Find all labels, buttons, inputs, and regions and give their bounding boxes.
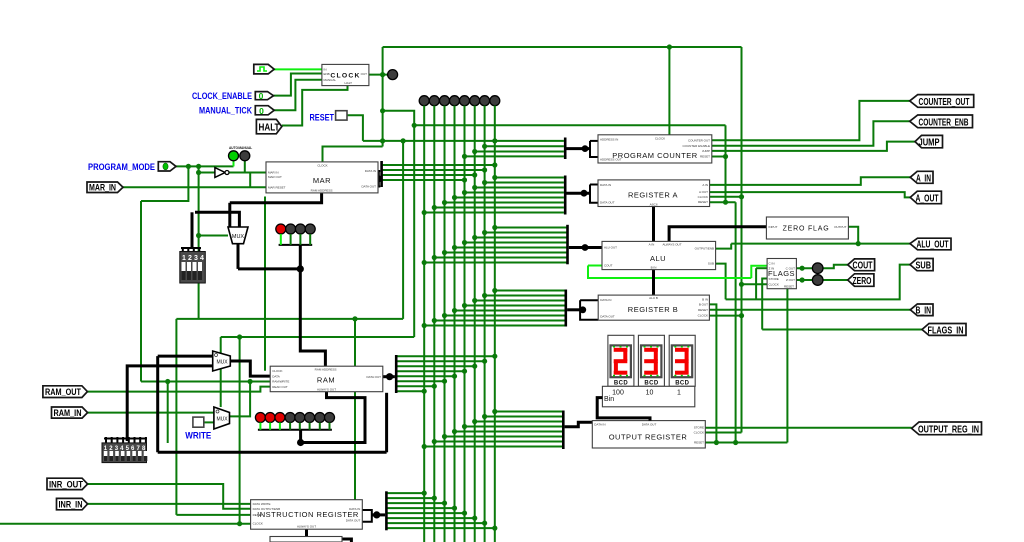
svg-text:ALWAYS OUT: ALWAYS OUT bbox=[662, 242, 681, 246]
box REGISTER B bbox=[598, 295, 709, 320]
wire y125.3 horizontal bbox=[414, 124, 725, 126]
wire regb reset jog bbox=[709, 304, 716, 442]
LED bus3 bbox=[450, 96, 460, 106]
splitter MAR bar bbox=[380, 161, 383, 187]
pin MANUAL_TICK bbox=[255, 106, 274, 116]
wire inr_out route bbox=[88, 484, 251, 509]
box MAR bbox=[266, 162, 378, 193]
wire dip4 stem bbox=[191, 212, 194, 248]
LED D1 clock indicator bbox=[388, 70, 398, 80]
wire mar-mux select bbox=[199, 235, 228, 237]
wire RAM-bus bit y361.2 bbox=[398, 360, 485, 362]
wire ALU-bus bit y262.5 bbox=[424, 262, 567, 264]
node not-in bbox=[196, 170, 201, 175]
wire counter_enb route bbox=[712, 121, 910, 146]
node ALU stem bbox=[582, 244, 589, 251]
wire IR-bus bit y523.1 bbox=[388, 522, 485, 524]
svg-text:REGISTER A: REGISTER A bbox=[628, 191, 678, 200]
svg-text:CLOCK: CLOCK bbox=[317, 164, 327, 168]
svg-text:DATA OUT: DATA OUT bbox=[361, 185, 376, 189]
svg-text:RAM_OUT: RAM_OUT bbox=[45, 387, 81, 397]
svg-text:DATA IN: DATA IN bbox=[594, 423, 605, 427]
wire flags store riser bbox=[762, 279, 767, 330]
svg-text:ADDRESS IN: ADDRESS IN bbox=[600, 138, 618, 142]
svg-text:CLOCK: CLOCK bbox=[769, 283, 779, 287]
wire not input stub bbox=[199, 172, 215, 174]
wire rega reset jog bbox=[710, 201, 736, 203]
svg-text:ALWAYS OUT: ALWAYS OUT bbox=[297, 525, 316, 529]
wire ALU-bus bit y257.5 bbox=[434, 257, 567, 259]
wire IR alwaysout bbox=[307, 529, 352, 542]
wire outreg store line bbox=[706, 427, 912, 429]
LED bus1 bbox=[429, 96, 439, 106]
wire led A3 stub bbox=[299, 234, 301, 245]
wire clock jog to x414 bbox=[383, 111, 415, 337]
label A_IN bbox=[910, 171, 933, 184]
svg-text:COUT: COUT bbox=[604, 264, 613, 268]
wire manual led stub bbox=[244, 161, 246, 173]
svg-text:C OUT: C OUT bbox=[786, 266, 796, 270]
node regb clock bbox=[739, 313, 744, 318]
wire y337 horizontal bbox=[221, 336, 415, 338]
wire flags cin lime bbox=[751, 266, 767, 278]
wire OUTREG-bus bit y426.5 bbox=[465, 426, 563, 428]
svg-text:CLOCK: CLOCK bbox=[253, 522, 263, 526]
svg-text:RESET: RESET bbox=[694, 441, 704, 445]
wire REGB-bus bit y295.5 bbox=[485, 295, 566, 297]
LED B7 bbox=[315, 413, 325, 423]
node alu_out zf tap bbox=[856, 241, 861, 246]
wire OUTREG-bus bit y411.5 bbox=[495, 411, 563, 413]
svg-text:A IN: A IN bbox=[702, 183, 708, 187]
wire mar-mux in2 bbox=[195, 212, 239, 227]
svg-text:OUT: OUT bbox=[361, 72, 368, 76]
box PROGRAM COUNTER bbox=[598, 135, 712, 163]
wire halt route bbox=[282, 86, 348, 126]
mux M2 ram-data bbox=[213, 351, 231, 371]
wire mux2 output riser bbox=[230, 382, 251, 417]
svg-text:2: 2 bbox=[188, 255, 192, 262]
svg-text:COUNTER OUT: COUNTER OUT bbox=[688, 138, 710, 142]
LED B5 bbox=[295, 413, 305, 423]
label COUNTER_OUT bbox=[910, 95, 974, 108]
wire REGB-bus bit y325.5 bbox=[424, 325, 565, 327]
node ramwrite x167.7 bbox=[165, 379, 170, 384]
svg-text:ENB: ENB bbox=[324, 72, 330, 76]
LED bank2 comb bbox=[258, 429, 332, 431]
pin clock-source bbox=[254, 64, 274, 74]
LED D3 zero bbox=[812, 275, 823, 286]
wire REGB-bus bit y305.5 bbox=[465, 305, 566, 307]
label INR_OUT bbox=[47, 478, 88, 489]
svg-text:CLOCK: CLOCK bbox=[694, 431, 704, 435]
LED manual bbox=[240, 151, 250, 161]
box RAM bbox=[270, 366, 383, 392]
label ZERO bbox=[848, 274, 874, 287]
wire RAM-bus bit y391.2 bbox=[398, 390, 425, 392]
svg-text:OUTPUT REGISTER: OUTPUT REGISTER bbox=[609, 433, 688, 442]
wire x735.6 vertical reset south bbox=[735, 202, 737, 442]
wire outreg reset line bbox=[706, 442, 788, 444]
node y141 x403 bbox=[401, 138, 406, 143]
LED bank1 comb bbox=[279, 244, 313, 246]
pin RESET square bbox=[336, 111, 347, 120]
wire MAR ram-address bus bbox=[230, 193, 322, 203]
node pm x188 bbox=[186, 164, 191, 169]
splitter RAM bar bbox=[395, 355, 398, 393]
wire not output to MAR bbox=[229, 172, 266, 174]
wire pc clock drop bbox=[668, 47, 670, 135]
wire inr_in line bbox=[88, 503, 251, 505]
LED auto green bbox=[229, 151, 239, 161]
LED B4 bbox=[285, 413, 295, 423]
wire top horizontal y47 bbox=[383, 46, 742, 48]
svg-text:1: 1 bbox=[677, 390, 681, 397]
wire sub line bbox=[726, 265, 910, 300]
pin WRITE square bbox=[193, 417, 204, 427]
wire clock distribution vertical x741 bbox=[741, 47, 743, 433]
wire MAR-bus bit y165 bbox=[383, 164, 495, 166]
box ALU bbox=[602, 241, 716, 269]
svg-text:MANUAL_TICK: MANUAL_TICK bbox=[199, 106, 252, 117]
svg-text:DATA IN: DATA IN bbox=[365, 169, 376, 173]
wire big loop right riser bbox=[385, 393, 388, 453]
node flags cout bbox=[800, 266, 805, 271]
LED A2 bbox=[286, 224, 296, 234]
wire ALU-bus bit y227.5 bbox=[495, 227, 567, 229]
svg-text:BCD: BCD bbox=[675, 381, 689, 387]
label RAM_IN bbox=[52, 407, 88, 418]
node clock branch y110.8 bbox=[380, 108, 385, 113]
box FLAGS bbox=[767, 259, 796, 289]
wire RAM dataout stem bbox=[383, 375, 395, 378]
svg-text:STORE: STORE bbox=[694, 426, 704, 430]
wire bus column 0 bbox=[423, 106, 425, 542]
LED B6 bbox=[305, 413, 315, 423]
wire mux-out to ram address bbox=[238, 267, 300, 270]
wire flags zin stub bbox=[756, 267, 767, 269]
label JUMP bbox=[915, 135, 943, 148]
wire MAR-bus bit y170 bbox=[383, 169, 485, 171]
svg-text:A_IN: A_IN bbox=[916, 173, 931, 184]
DIP switch S1 1234 bbox=[180, 248, 206, 284]
svg-text:ADDRESS OUT: ADDRESS OUT bbox=[600, 158, 622, 162]
wire OUTREG-bus bit y446.5 bbox=[424, 446, 562, 448]
svg-text:B IN: B IN bbox=[651, 265, 657, 269]
wire mux-ram out bbox=[230, 361, 270, 376]
node IR clock tap bbox=[237, 521, 242, 526]
svg-text:JUMP: JUMP bbox=[919, 138, 940, 149]
wire ALU-bus bit y242.5 bbox=[465, 242, 568, 244]
splitter REGB bracket bbox=[580, 300, 598, 320]
node led bank2 stem bbox=[297, 439, 304, 446]
wire bus column 7 bbox=[494, 106, 496, 542]
wire REGA-bus bit y197.5 bbox=[455, 197, 564, 199]
box Bin to BCD bbox=[602, 386, 694, 407]
svg-text:MUX: MUX bbox=[232, 234, 245, 240]
wire rega to alu bus bbox=[652, 207, 655, 242]
wire REGA-bus bit y177.5 bbox=[495, 177, 564, 179]
label OUTPUT_REG_IN bbox=[912, 422, 982, 435]
wire ALU-bus bit y252.5 bbox=[445, 252, 568, 254]
splitter REGA bracket bbox=[590, 185, 598, 203]
svg-text:AUTO: AUTO bbox=[229, 146, 238, 150]
node PC stem bbox=[582, 145, 589, 152]
svg-text:MAR: MAR bbox=[313, 176, 331, 185]
svg-text:INR_OUT: INR_OUT bbox=[49, 480, 83, 490]
box OUTPUT REGISTER bbox=[592, 421, 705, 448]
svg-text:ALU B: ALU B bbox=[649, 296, 658, 300]
wire led bank2 stem bbox=[299, 430, 302, 443]
svg-text:RESET: RESET bbox=[700, 155, 710, 159]
wire led A2 stub bbox=[290, 234, 292, 245]
node ram address bbox=[297, 265, 304, 272]
svg-text:CLOCK: CLOCK bbox=[272, 369, 282, 373]
svg-text:RESET: RESET bbox=[310, 112, 335, 123]
7seg display H2 digit 3 bbox=[638, 335, 664, 386]
svg-text:MANUAL: MANUAL bbox=[238, 146, 252, 150]
svg-text:3: 3 bbox=[194, 255, 198, 262]
label A_OUT bbox=[910, 191, 941, 204]
wire flags reset drop bbox=[786, 289, 788, 443]
svg-text:COUNTER ENABLE: COUNTER ENABLE bbox=[682, 144, 710, 148]
node y141 x494.8 bbox=[492, 138, 497, 143]
svg-text:RAM_IN: RAM_IN bbox=[54, 408, 82, 418]
svg-text:A OUT: A OUT bbox=[699, 190, 708, 194]
box CLOCK bbox=[322, 64, 369, 85]
svg-text:A IN: A IN bbox=[649, 242, 655, 246]
svg-text:0: 0 bbox=[259, 106, 264, 116]
wire bus column 3 bbox=[454, 106, 456, 542]
wire counter_out route bbox=[712, 101, 910, 140]
wire alu to regb bus bbox=[652, 270, 655, 296]
mux M1 mar-address bbox=[228, 227, 248, 244]
node pm x198 bbox=[196, 164, 201, 169]
wire OUTREG-bus bit y436.5 bbox=[445, 436, 563, 438]
svg-text:BCD: BCD bbox=[614, 381, 628, 387]
wire x176 vertical bbox=[175, 319, 177, 515]
wire REGB-bus bit y310.5 bbox=[455, 310, 566, 312]
svg-text:RAM: RAM bbox=[317, 376, 335, 385]
LED bus4 bbox=[460, 96, 470, 106]
wire PC-bus bit y146.3 bbox=[485, 145, 564, 147]
splitter IR bracket bbox=[362, 510, 372, 522]
svg-text:MAR_IN: MAR_IN bbox=[89, 183, 116, 193]
svg-text:DATA: DATA bbox=[272, 374, 280, 378]
DIP switch S2 12345678 bbox=[102, 437, 147, 463]
wire y318.9 horizontal bbox=[176, 318, 403, 320]
svg-text:HALT: HALT bbox=[259, 122, 280, 133]
7seg display H1 digit 2 bbox=[608, 335, 634, 386]
wire MAR-bus bit y175 bbox=[383, 174, 475, 176]
svg-text:MAR IN: MAR IN bbox=[268, 171, 279, 175]
svg-text:COUT: COUT bbox=[853, 261, 873, 272]
svg-text:REGISTER B: REGISTER B bbox=[628, 305, 678, 314]
svg-text:OUTPUT: OUTPUT bbox=[834, 225, 847, 229]
wire OUTREG-bus bit y431.5 bbox=[455, 431, 563, 433]
wire x239.6 vertical bbox=[239, 337, 241, 524]
svg-text:WRITE: WRITE bbox=[185, 431, 211, 442]
node outreg reset x716 bbox=[714, 440, 719, 445]
node rega clock bbox=[739, 194, 744, 199]
svg-text:CLOCK: CLOCK bbox=[655, 137, 665, 141]
node ramwrite x250.1 bbox=[248, 379, 253, 384]
svg-text:DATA IN: DATA IN bbox=[600, 298, 611, 302]
wire ALU-bus bit y237.5 bbox=[475, 237, 568, 239]
wire IR clock long horizontal bbox=[0, 523, 251, 525]
wire reset pin route bbox=[347, 115, 363, 141]
LED bus5 bbox=[470, 96, 480, 106]
wire IR-bus bit y508.1 bbox=[388, 507, 455, 509]
wire mux-ram in1 bbox=[158, 355, 213, 358]
box INSTRUCTION REGISTER bbox=[251, 500, 363, 530]
svg-text:RAM/WRITE: RAM/WRITE bbox=[272, 380, 289, 384]
wire write square stub bbox=[204, 421, 214, 423]
wire MAR data stubs bbox=[372, 170, 380, 172]
splitter PC bracket bbox=[590, 141, 598, 157]
wire alu alwaysout to zeroflag bbox=[669, 227, 766, 242]
wire bin input bus bbox=[597, 398, 650, 421]
label HALT bbox=[256, 119, 281, 133]
label B_IN bbox=[910, 304, 933, 317]
splitter PC bar bbox=[564, 138, 567, 160]
wire x403 vertical bbox=[402, 141, 404, 319]
wire IR-bus bit y493.1 bbox=[388, 492, 425, 494]
svg-text:SUB: SUB bbox=[708, 262, 714, 266]
label COUNTER_ENB bbox=[910, 115, 973, 128]
svg-text:DATA OUT: DATA OUT bbox=[600, 315, 615, 319]
wire ram_out label line bbox=[87, 387, 270, 392]
wire ram clock vertical bbox=[264, 197, 266, 371]
svg-text:RAM ADDRESS: RAM ADDRESS bbox=[311, 188, 333, 192]
svg-text:INR_IN: INR_IN bbox=[59, 499, 83, 509]
LED B2 red bbox=[265, 413, 275, 423]
wire led A1 stub lime bbox=[280, 234, 282, 245]
svg-text:JUMP: JUMP bbox=[702, 149, 710, 153]
node x414 y125.3 bbox=[412, 123, 417, 128]
node y318.9 x355 bbox=[352, 316, 357, 321]
svg-text:STORE: STORE bbox=[769, 277, 779, 281]
wire reset horizontal y141 bbox=[363, 140, 564, 142]
label FLAGS_IN bbox=[922, 324, 966, 337]
wire ram alwaysout path bbox=[301, 392, 365, 443]
node flags zout bbox=[800, 277, 805, 282]
svg-text:RESET: RESET bbox=[253, 513, 263, 517]
wire PC-bus bit y156.4 bbox=[465, 155, 564, 157]
svg-text:INPUT: INPUT bbox=[769, 225, 778, 229]
splitter REGA bar bbox=[564, 176, 567, 215]
wire ALU-bus bit y247.5 bbox=[455, 247, 568, 249]
wire IR-bus bit y498.1 bbox=[388, 497, 435, 499]
wire a_in route bbox=[710, 177, 911, 185]
wire program_mode line bbox=[176, 165, 234, 167]
wire OUTREG-bus bit y441.5 bbox=[434, 441, 562, 443]
node rega reset bbox=[723, 200, 728, 205]
wire RAM-bus bit y371.2 bbox=[398, 370, 465, 372]
wire OUTREG stem bbox=[565, 422, 593, 427]
splitter MAR bracket bbox=[377, 171, 380, 187]
svg-text:COUNTER_ENB: COUNTER_ENB bbox=[919, 117, 969, 128]
node MAR splitter stem bbox=[375, 175, 382, 182]
wire IR stem bbox=[372, 513, 385, 516]
wire alu cout stub lime bbox=[588, 265, 602, 267]
svg-text:A_OUT: A_OUT bbox=[916, 194, 939, 205]
wire PC stem bbox=[567, 147, 591, 150]
wire bus column 2 bbox=[444, 106, 446, 542]
svg-text:RESET: RESET bbox=[784, 284, 794, 288]
svg-text:PROGRAM_MODE: PROGRAM_MODE bbox=[88, 162, 155, 173]
wire OUTREG-bus bit y416.5 bbox=[485, 416, 563, 418]
wire REGB-bus bit y290.5 bbox=[495, 290, 566, 292]
wire dip8 stem bbox=[127, 366, 213, 441]
gate NOT program-mode bbox=[215, 168, 229, 178]
wire REGA-bus bit y202.5 bbox=[445, 202, 564, 204]
wire manual_tick route bbox=[274, 80, 322, 111]
LED bus0 bbox=[419, 96, 429, 106]
wire RAM-bus bit y386.2 bbox=[398, 385, 435, 387]
wire bus column 4 bbox=[464, 106, 466, 542]
splitter IR bar bbox=[385, 491, 388, 530]
svg-text:MUX: MUX bbox=[216, 360, 228, 366]
wire mar_in line bbox=[123, 186, 266, 188]
wire flags clock feed bbox=[742, 283, 768, 285]
wire alu outputenb stub bbox=[716, 244, 732, 249]
svg-text:RAM ADDRESS: RAM ADDRESS bbox=[315, 368, 337, 372]
wire IR-bus bit y528.1 bbox=[388, 527, 495, 529]
LED bus6 bbox=[480, 96, 490, 106]
label ALU_OUT bbox=[910, 238, 951, 250]
wire clock-out lime bbox=[274, 68, 322, 70]
wire big loop bottom bbox=[158, 451, 387, 454]
wire REGA-bus bit y192.5 bbox=[465, 192, 564, 194]
wire IR-bus bit y513.1 bbox=[388, 512, 465, 514]
svg-text:ALU_OUT: ALU_OUT bbox=[917, 240, 949, 251]
wire REGA stem bbox=[567, 192, 591, 195]
wire flags_in line bbox=[762, 329, 922, 331]
pin PROGRAM_MODE bbox=[158, 162, 176, 171]
svg-text:HALT: HALT bbox=[345, 81, 353, 85]
7seg display H3 digit 3 bbox=[669, 335, 695, 386]
node pc reset bbox=[723, 154, 728, 159]
wire x188 drop bbox=[141, 166, 188, 201]
wire mar-mux out bbox=[237, 244, 240, 269]
svg-text:C IN: C IN bbox=[769, 262, 775, 266]
wire led A4 stub bbox=[309, 234, 311, 245]
node clock-out junction bbox=[380, 72, 385, 77]
wire rega clock stub bbox=[710, 196, 742, 198]
splitter ALU bar bbox=[566, 225, 569, 264]
wire RAM-bus bit y356.2 bbox=[398, 355, 495, 357]
svg-text:4: 4 bbox=[200, 255, 204, 262]
svg-text:DATA OUT: DATA OUT bbox=[600, 201, 615, 205]
svg-text:SUB: SUB bbox=[916, 261, 932, 272]
mux M3 write bbox=[214, 407, 230, 429]
LED D2 carry bbox=[812, 263, 823, 274]
LED A4 bbox=[305, 224, 315, 234]
wire auto led stub bbox=[233, 161, 235, 167]
wire a_out route bbox=[710, 192, 911, 197]
node REGA stem bbox=[581, 190, 588, 197]
wire x725.5 vertical reset bbox=[725, 125, 727, 202]
svg-text:1: 1 bbox=[182, 255, 186, 262]
svg-text:0: 0 bbox=[259, 91, 264, 101]
svg-text:ASCII: ASCII bbox=[650, 202, 658, 206]
svg-text:DATA IN: DATA IN bbox=[349, 507, 360, 511]
svg-text:MANUAL: MANUAL bbox=[324, 78, 337, 82]
svg-text:B OUT: B OUT bbox=[699, 303, 708, 307]
pin CLOCK_ENABLE bbox=[255, 91, 273, 101]
svg-text:B IN: B IN bbox=[702, 297, 708, 301]
